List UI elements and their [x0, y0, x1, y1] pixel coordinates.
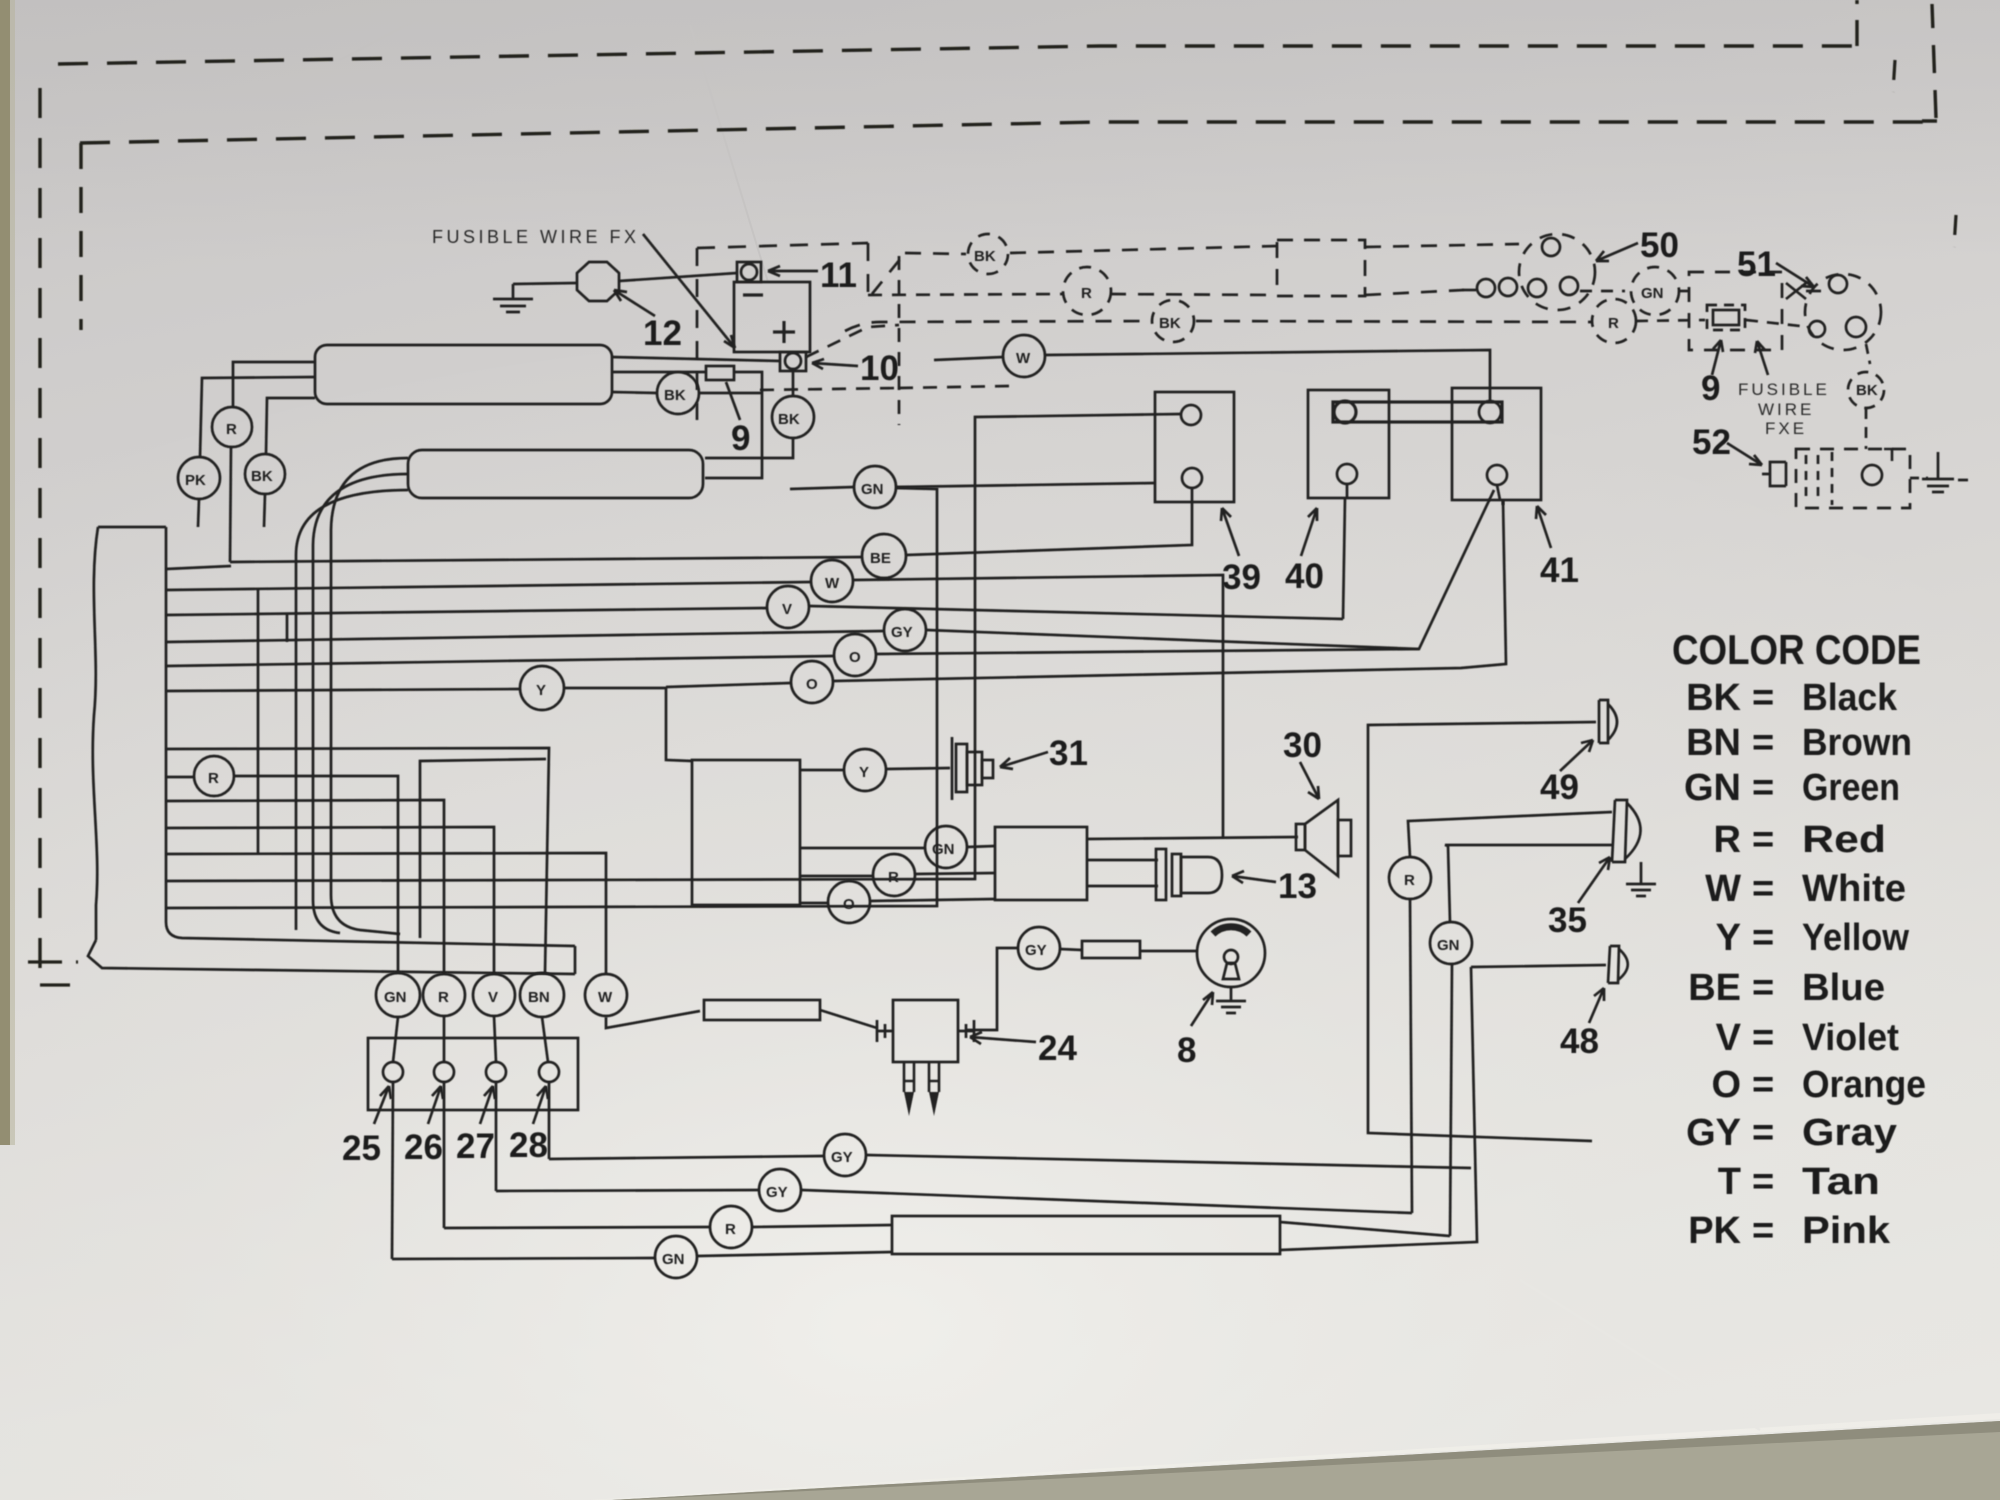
wire PK bead down [198, 499, 199, 527]
wire cable to box 39 top (long loop) [166, 414, 1181, 881]
label 51 arrow [1776, 263, 1814, 287]
dashed row A continues [1010, 246, 1277, 253]
svg-text:9: 9 [731, 419, 750, 458]
svg-text:Brown: Brown [1802, 722, 1912, 764]
wire BE to box 39 lower stem [906, 488, 1192, 555]
color bead W (column) [585, 974, 627, 1016]
dashed color bead BK (row A) [968, 234, 1008, 274]
color bead V [767, 586, 809, 628]
svg-text:Gray: Gray [1802, 1112, 1897, 1154]
color bead GY (mid) [884, 609, 926, 651]
wire stub vertical 2 [286, 614, 289, 642]
connector 50 pin 3 [1560, 277, 1578, 295]
dashed fuse block [1277, 240, 1365, 296]
wiring harness cable (left) [93, 527, 98, 940]
svg-text:=: = [1752, 677, 1774, 719]
dashed row A to fuse block [872, 253, 966, 294]
svg-text:30: 30 [1283, 726, 1322, 765]
generator lead 3 (curved to cable top) [296, 490, 408, 930]
wire W bead column to fuse 2 [606, 1011, 700, 1028]
svg-text:BN: BN [1686, 722, 1741, 764]
svg-text:48: 48 [1560, 1022, 1599, 1061]
label 52 arrow [1727, 443, 1762, 465]
connector 12 (octagon) [577, 262, 619, 301]
color bead R (lamp circuit) [1389, 857, 1431, 899]
battery terminal 10 [780, 352, 806, 371]
color bead BK (third regulator lead) [245, 454, 285, 494]
label 28 arrow [533, 1086, 548, 1124]
wire coil to horn [1087, 837, 1298, 839]
wire stub vertical 1 [257, 590, 260, 853]
svg-text:GN: GN [1437, 937, 1460, 954]
color bead GY (bus upper) [824, 1134, 866, 1176]
svg-text:O: O [806, 676, 818, 693]
box 40 terminal [1337, 464, 1357, 484]
svg-text:=: = [1752, 1210, 1774, 1252]
svg-text:BK: BK [1686, 677, 1741, 719]
svg-text:R: R [1081, 285, 1092, 302]
svg-text:BK: BK [1856, 382, 1878, 399]
svg-text:GY: GY [891, 624, 913, 641]
svg-text:GY: GY [1686, 1112, 1741, 1154]
horn 30 [1296, 824, 1305, 850]
wire coil to spark plugs lower [1087, 885, 1158, 888]
svg-text:=: = [1752, 868, 1774, 910]
box 39 terminal upper [1181, 405, 1201, 425]
svg-text:V: V [488, 989, 498, 1006]
wire connector 12 to battery terminal 11 [619, 273, 737, 281]
svg-text:BE: BE [1688, 967, 1741, 1009]
fuse 9 [706, 366, 734, 380]
wire BK bead to regulator [266, 398, 315, 454]
svg-text:GY: GY [766, 1184, 788, 1201]
svg-text:BK: BK [664, 387, 686, 404]
svg-text:FXE: FXE [1765, 419, 1807, 438]
flasher 24 body [893, 1000, 958, 1062]
wire BK bead down [264, 494, 265, 527]
label 48 arrow [1589, 988, 1604, 1023]
wire battery term 10 to BK bead [792, 371, 795, 396]
ground (ignition switch 8) [1216, 987, 1246, 1013]
wire W bead to horn branch [853, 575, 1223, 838]
label 41 arrow [1536, 506, 1551, 548]
svg-text:52: 52 [1692, 423, 1731, 462]
ground (battery negative circuit) [493, 284, 533, 312]
wire W chain from cable [166, 582, 810, 590]
wire GY bead to flasher 24 [966, 948, 1018, 1030]
wire O bead to diagonal junction [877, 649, 1419, 654]
wire ignition to R bead [800, 875, 873, 878]
outer dashed border left vertical [38, 88, 41, 985]
dashed vertical node line [898, 256, 901, 425]
box 40 stem [1343, 484, 1347, 619]
R bus to conduit [753, 1225, 892, 1227]
color bead GN (bus) [655, 1236, 697, 1278]
wire BE chain (R bead junction to box 39 lower) [230, 557, 862, 562]
tail lamp 49 [1599, 700, 1617, 743]
wire O2 bead left stub [666, 683, 790, 687]
wire GN bead left stub [790, 487, 854, 489]
color bead GN (coil feed) [925, 826, 967, 868]
connector 52 inner divider [1831, 452, 1834, 505]
generator lead 2 (curved into harness) [313, 474, 408, 933]
svg-text:=: = [1752, 722, 1774, 764]
generator [408, 450, 703, 498]
svg-text:=: = [1752, 1161, 1774, 1203]
box 41 stem [1497, 485, 1503, 505]
terminal 27 stem to GY bus lower [495, 1082, 498, 1191]
wire Y bead to ignition block [564, 688, 692, 761]
svg-text:10: 10 [860, 349, 899, 388]
svg-text:BK: BK [974, 248, 996, 265]
ground (headlamp 35) [1626, 862, 1656, 896]
svg-text:50: 50 [1640, 226, 1679, 265]
label 24 arrow [970, 1032, 1036, 1044]
switch link bar (40-41) [1333, 402, 1502, 422]
conduit to GN bead vertical [1280, 1222, 1450, 1236]
color bead PK [178, 457, 220, 499]
inner dashed border top horizontal [80, 122, 1937, 143]
dashed drop from connector 51 [1866, 344, 1870, 364]
svg-text:R: R [208, 770, 219, 787]
color bead BK (battery ground lead) [772, 396, 814, 438]
wire cable to V column [166, 827, 494, 973]
battery terminal 11 [737, 262, 761, 282]
dashed row C [845, 321, 1150, 331]
svg-text:COLOR CODE: COLOR CODE [1672, 626, 1921, 673]
generator lead 1 (curved into harness) [331, 458, 408, 934]
svg-text:BK: BK [251, 468, 273, 485]
wire cable to R column [166, 800, 444, 973]
wire regulator to BK bead [612, 392, 657, 393]
dashed color bead R (row C) [1592, 299, 1636, 343]
inner dashed border left corner stub [79, 143, 82, 330]
svg-text:28: 28 [509, 1126, 548, 1165]
color bead R (harness) [194, 756, 234, 796]
stray dashed marks right edge [1893, 60, 1956, 247]
svg-text:31: 31 [1049, 734, 1088, 773]
flasher 24 prong 2 [929, 1062, 939, 1092]
wire O2 bead to box 41 stem [834, 500, 1506, 681]
dashed wire row B to connector [1110, 290, 1464, 295]
svg-text:Blue: Blue [1802, 967, 1885, 1009]
svg-text:13: 13 [1278, 867, 1317, 906]
handlebar switch box 41 [1452, 388, 1541, 500]
wire W bead left stub [934, 357, 1003, 360]
connector 51 (dashed shell) [1805, 274, 1881, 350]
flasher 24 prong 1 [904, 1062, 914, 1092]
harness trunk bottom edge (torn left end) [88, 940, 575, 974]
accessory plug 31 [951, 737, 954, 800]
svg-text:Y: Y [859, 764, 869, 781]
outer dashed border bottom-left hook [28, 962, 78, 985]
dashed wire BK bead to connector 52 [1865, 408, 1868, 449]
svg-text:39: 39 [1222, 558, 1261, 597]
wire GN bead to box 39 [896, 483, 1155, 487]
handlebar switch box 39 [1155, 392, 1234, 502]
rear conduit [892, 1216, 1280, 1254]
wire GN bead to coil [967, 846, 995, 847]
svg-text:GY: GY [1025, 942, 1047, 959]
turn lamp 48 [1608, 946, 1628, 983]
wire PK bead to regulator [200, 377, 315, 457]
wire BK bead to node [699, 392, 762, 395]
dashed wire R bead to FXE fuse [1636, 320, 1800, 326]
svg-text:8: 8 [1177, 1031, 1196, 1070]
svg-text:Tan: Tan [1802, 1161, 1880, 1203]
wire R bead down to harness junction [230, 447, 231, 562]
svg-text:GN: GN [1684, 767, 1741, 809]
wire Y bead to accessory plug 31 [887, 768, 950, 769]
box 41 terminal lower [1487, 465, 1507, 485]
label 10 arrow [812, 359, 858, 369]
label 9 arrow (FXE) [1712, 340, 1723, 375]
wire fuse to GY bead [1060, 949, 1082, 950]
fuse (switch 8 feed) [1082, 941, 1140, 958]
R bus [444, 1227, 709, 1228]
wire R bead to terminal 26 [443, 1016, 446, 1062]
label 8 arrow [1191, 992, 1213, 1026]
GN bus [392, 1258, 654, 1259]
svg-text:WIRE: WIRE [1758, 400, 1814, 419]
GY bus upper [549, 1156, 823, 1159]
svg-text:W: W [1705, 868, 1741, 910]
dashed color bead GN (headlamp) [1631, 267, 1679, 315]
wire V chain from cable [166, 608, 766, 615]
svg-text:11: 11 [820, 256, 857, 295]
svg-text:W: W [598, 989, 613, 1006]
color bead R (column) [423, 974, 465, 1016]
label 39 arrow [1221, 508, 1239, 556]
dashed color bead BK (row C) [1152, 300, 1194, 342]
table surface bottom right wedge [612, 1421, 2000, 1500]
conduit bottom continues [1280, 967, 1477, 1250]
terminal 25 [383, 1062, 403, 1082]
wire R bead to coil [915, 873, 995, 874]
X junction to pin1 [1786, 283, 1821, 299]
svg-text:R: R [1714, 819, 1741, 861]
connector terminal pair [1477, 279, 1495, 297]
dashed box around battery [697, 243, 868, 420]
label 49 arrow [1560, 740, 1593, 771]
dashed wire to ground [1910, 477, 1928, 480]
FXE label arrow [1755, 341, 1768, 375]
connector 51 pin 3 [1846, 317, 1866, 337]
wire fuse 2 to flasher 24 [820, 1010, 877, 1028]
svg-text:R: R [1404, 872, 1415, 889]
label 26 arrow [428, 1086, 443, 1124]
color bead W (headlamp feed) [1003, 335, 1045, 377]
dashed wire battery term 10 diagonal [806, 325, 899, 357]
svg-text:GN: GN [384, 989, 407, 1006]
wire coil to spark plugs upper [1087, 859, 1158, 862]
color bead W (mid) [811, 560, 853, 602]
wire BK bead to generator [705, 438, 793, 458]
link bar terminal left [1334, 401, 1356, 423]
label 50 arrow [1596, 243, 1638, 261]
color bead BN (column) [520, 973, 564, 1017]
label 30 arrow [1300, 762, 1319, 799]
svg-text:=: = [1752, 967, 1774, 1009]
svg-text:Violet: Violet [1802, 1017, 1899, 1059]
wire BN bead to terminal 28 [542, 1017, 548, 1062]
svg-text:PK: PK [1688, 1210, 1741, 1252]
flasher 24 left terminal [877, 1020, 893, 1042]
svg-text:12: 12 [643, 314, 682, 353]
svg-text:W: W [825, 575, 840, 592]
svg-text:BK: BK [778, 411, 800, 428]
terminal 26 stem to R bus [443, 1082, 446, 1228]
svg-text:49: 49 [1540, 768, 1579, 807]
table edge left strip [0, 0, 10, 1145]
svg-text:26: 26 [404, 1128, 443, 1167]
svg-text:R: R [226, 421, 237, 438]
color bead Y [520, 666, 564, 710]
svg-text:Orange: Orange [1802, 1064, 1926, 1106]
svg-text:GN: GN [662, 1251, 685, 1268]
svg-text:GN: GN [1641, 285, 1664, 302]
svg-text:Red: Red [1802, 819, 1886, 861]
connector 52 (dashed shell) [1796, 449, 1910, 508]
svg-text:W: W [1016, 350, 1031, 367]
fuse (flasher feed) [704, 1000, 820, 1020]
ignition block [692, 760, 800, 905]
svg-text:FUSIBLE: FUSIBLE [1738, 380, 1830, 399]
wire to lamp 48 [1471, 965, 1606, 967]
outer dashed border top horizontal [58, 46, 1855, 64]
harness trunk right cap [574, 946, 577, 974]
GY bus lower continues [802, 1190, 1412, 1213]
GY bus upper continues to lamp 48 [867, 1155, 1471, 1168]
svg-text:40: 40 [1285, 557, 1324, 596]
terminal 25 stem to GN bus [392, 1082, 393, 1259]
color bead O (second) [791, 661, 833, 703]
link bar terminal right [1479, 401, 1501, 423]
ignition coil [995, 827, 1087, 900]
outer dashed border top-right vertical [1855, 0, 1858, 46]
svg-text:=: = [1752, 1064, 1774, 1106]
wire ignition to GN bead [800, 847, 925, 850]
connector 50 (dashed shell) [1519, 234, 1595, 310]
color bead R (coil feed) [873, 854, 915, 896]
svg-text:R: R [1608, 315, 1619, 332]
spark plug connector 13 [1156, 849, 1166, 900]
wire R bead to regulator [233, 362, 315, 407]
color bead GN (column) [376, 973, 420, 1017]
color bead GY (switch feed) [1018, 927, 1060, 969]
wire lamp 35 lower terminal [1445, 845, 1612, 922]
box 39 terminal lower [1182, 468, 1202, 488]
svg-text:GY: GY [831, 1149, 853, 1166]
voltage regulator [315, 345, 612, 404]
svg-text:BN: BN [528, 989, 550, 1006]
color bead BK (regulator output) [657, 372, 699, 414]
battery [734, 282, 810, 352]
dashed color bead BK (tail circuit) [1848, 372, 1884, 408]
svg-text:FUSIBLE WIRE FX: FUSIBLE WIRE FX [432, 227, 640, 247]
dashed wire row C [1196, 321, 1592, 322]
wire V bead to terminal 27 [494, 1016, 496, 1062]
svg-text:=: = [1752, 1112, 1774, 1154]
wire to lamp 49 [1368, 722, 1596, 1141]
wire lamp 35 upper terminal [1408, 812, 1612, 857]
wire cable top row [166, 566, 231, 569]
label 11 arrow [768, 266, 818, 276]
connector 51 pin 2 [1809, 321, 1825, 337]
ground (tail circuit) [1922, 452, 1968, 492]
terminal 28 [539, 1062, 559, 1082]
label 25 arrow [374, 1086, 391, 1124]
color bead O (coil feed) [828, 881, 870, 923]
GY bus lower [496, 1190, 758, 1191]
svg-text:White: White [1802, 868, 1906, 910]
connector 52 plug [1762, 462, 1786, 486]
wire fuse 9 to node [705, 372, 762, 478]
color bead O (first) [834, 634, 876, 676]
svg-text:BK: BK [1159, 315, 1181, 332]
color bead GY (bus lower) [759, 1169, 801, 1211]
top right corner mark [1884, 449, 1892, 461]
svg-text:9: 9 [1701, 369, 1720, 408]
svg-text:Green: Green [1802, 767, 1900, 809]
label 31 arrow [1000, 752, 1048, 769]
wire BN chain from cable [166, 748, 549, 973]
label 35 arrow [1578, 857, 1610, 903]
wire ignition to O bead [800, 902, 828, 905]
color bead R (regulator lead) [212, 407, 252, 447]
color bead V (column) [473, 974, 515, 1016]
wire harness R bead chain [166, 776, 194, 779]
svg-text:=: = [1752, 1017, 1774, 1059]
wire GN bead to terminal 25 [393, 1017, 398, 1062]
svg-text:Pink: Pink [1802, 1210, 1891, 1252]
wire R bead to GN column [234, 776, 398, 973]
GN bus to conduit bottom [698, 1252, 892, 1256]
svg-text:41: 41 [1540, 551, 1579, 590]
label 12 arrow [614, 290, 655, 316]
connector 51 pin 1 [1829, 275, 1847, 293]
color bead BE [862, 534, 906, 578]
connector 50 pin 1 [1542, 238, 1560, 256]
ignition switch 8 [1197, 919, 1265, 987]
wire V bead to box 40 stem [810, 606, 1343, 619]
svg-text:27: 27 [456, 1127, 495, 1166]
svg-text:PK: PK [185, 472, 206, 489]
dashed wire lower row [760, 386, 1010, 390]
headlamp 35 [1612, 800, 1641, 862]
label 40 arrow [1301, 508, 1317, 556]
svg-text:=: = [1752, 767, 1774, 809]
color bead R (bus) [710, 1206, 752, 1248]
svg-text:GN: GN [861, 481, 884, 498]
svg-text:O: O [849, 649, 861, 666]
wire GY bead to box 41 diagonal [927, 490, 1494, 649]
svg-text:V: V [782, 601, 792, 618]
connector 52 terminal [1862, 465, 1882, 485]
terminal 27 [486, 1062, 506, 1082]
svg-text:R: R [725, 1221, 736, 1238]
color bead GN (lamp circuit) [1430, 922, 1472, 964]
fusible wire FX arrow [643, 234, 735, 348]
svg-text:V: V [1716, 1017, 1742, 1059]
svg-text:Black: Black [1802, 677, 1898, 719]
dimmer block (dashed) [1689, 272, 1782, 350]
wire cable to GN bead (top loop) [166, 488, 937, 908]
fusible wire FXE element [1707, 305, 1745, 330]
dashed row A continues to connector 50 [1365, 244, 1519, 247]
flasher 24 right terminal [958, 1020, 974, 1042]
svg-text:GN: GN [932, 841, 955, 858]
